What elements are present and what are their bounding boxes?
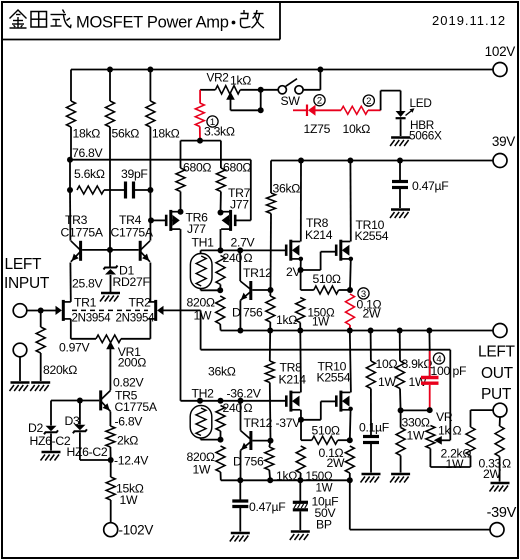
wire VR2 wiper stem xyxy=(230,100,232,111)
wire node to 680 right xyxy=(200,140,221,142)
ground below 330 xyxy=(390,474,410,483)
svg-text:36kΩ: 36kΩ xyxy=(208,365,236,379)
title kanji 田 xyxy=(31,12,47,28)
wire TR4 emitter to TR2 drain xyxy=(149,263,151,302)
svg-text:3.3kΩ: 3.3kΩ xyxy=(204,125,235,139)
svg-text:10kΩ: 10kΩ xyxy=(343,122,371,136)
wire 100pF top lead red overlay xyxy=(429,351,431,376)
resistor 150 upper 1W xyxy=(296,298,305,323)
wire 240 to junction xyxy=(219,285,221,291)
svg-text:200Ω: 200Ω xyxy=(118,356,146,370)
wire 2.7V line xyxy=(201,249,286,251)
resistor 2k xyxy=(106,426,115,447)
svg-text:Ω: Ω xyxy=(244,401,253,415)
wire TR7 gate riser xyxy=(250,160,252,221)
svg-text:2kΩ: 2kΩ xyxy=(117,434,138,448)
terminal -102V xyxy=(104,523,118,537)
svg-text:36kΩ: 36kΩ xyxy=(273,182,301,196)
potentiometer VR2 1k xyxy=(215,86,240,94)
wire TR3 emitter to TR1 drain xyxy=(69,263,71,302)
wire 3.9k top lead xyxy=(399,331,401,362)
title box right line xyxy=(279,2,281,40)
wire 0.33 to ground xyxy=(499,457,501,482)
svg-text:820Ω: 820Ω xyxy=(187,296,215,310)
wire 680 left bottom lead xyxy=(180,192,182,212)
wire 18k #1 bottom lead xyxy=(70,127,72,160)
wire TR10 lower drain riser xyxy=(350,331,351,393)
transistor TR8 upper K214 xyxy=(286,240,300,261)
svg-text:TH2: TH2 xyxy=(192,387,215,401)
resistor 820 upper 1W xyxy=(216,296,225,324)
junction TR12 upper base xyxy=(268,287,274,293)
wire 0.47uF upper to ground xyxy=(399,189,401,209)
capacitor 10uF 50V BP xyxy=(293,502,308,510)
switch SW pole 1 xyxy=(278,86,286,94)
svg-text:D: D xyxy=(233,455,242,469)
wire 36k upper bottom lead xyxy=(270,214,273,291)
svg-text:D2: D2 xyxy=(28,421,44,435)
wire TR10 lower source drop xyxy=(349,409,352,440)
svg-text:J77: J77 xyxy=(230,198,249,212)
wire 680 left top lead xyxy=(180,141,182,168)
wire 76.8V node down xyxy=(69,160,71,190)
wire TR8 upper drain riser xyxy=(300,161,302,242)
terminal 102V xyxy=(493,63,507,77)
junction TR7 drain stub xyxy=(218,210,224,216)
junction 3.9k 330 node xyxy=(398,407,404,413)
VR1 wiper arrow xyxy=(106,341,115,349)
svg-text:C1775A: C1775A xyxy=(61,226,104,240)
resistor 820k xyxy=(36,327,45,353)
wire 330 node link xyxy=(401,409,430,411)
wire TR8 lower drain riser xyxy=(299,331,302,393)
svg-text:J77: J77 xyxy=(187,222,206,236)
wire 10uF to ground xyxy=(299,512,301,531)
svg-text:2: 2 xyxy=(317,96,322,107)
wire TR8 lower source drop xyxy=(300,410,302,420)
circled 4 xyxy=(433,353,444,365)
wire SW to riser xyxy=(303,89,320,91)
transistor TR10 upper K2554 xyxy=(336,240,350,261)
wire TR10 lower gate lead xyxy=(321,400,336,402)
junction top rail x110 xyxy=(107,67,113,73)
dashed pair line xyxy=(72,309,148,311)
svg-text:Ω: Ω xyxy=(453,424,462,438)
terminal 39V xyxy=(493,154,507,168)
svg-text:1W: 1W xyxy=(446,457,464,471)
svg-text:756: 756 xyxy=(243,306,263,320)
svg-text:PUT: PUT xyxy=(481,386,512,403)
title kanji 式 xyxy=(51,10,72,28)
wire output rail xyxy=(221,330,493,332)
svg-text:BP: BP xyxy=(316,518,332,532)
transistor TR3 C1775A xyxy=(71,241,81,262)
wire 2k to -12.4V xyxy=(109,447,111,460)
wire 5.6k to cap xyxy=(104,189,126,191)
wire 0.1uF to ground xyxy=(370,444,372,473)
svg-text:1W: 1W xyxy=(316,482,333,495)
transistor TR2 2N3954 xyxy=(148,300,163,321)
LED HBR5066X xyxy=(396,108,415,118)
wire TR7 gate lead xyxy=(235,219,250,221)
wire 1k upper top lead xyxy=(269,290,271,296)
wire TH1 top lead xyxy=(200,250,202,253)
wire TR1 source to VR1 xyxy=(71,338,96,340)
svg-text:Ω: Ω xyxy=(502,457,511,471)
wire 10ohm top lead xyxy=(370,331,372,362)
circled 2 (10k) xyxy=(363,95,374,107)
svg-text:2019.11.12: 2019.11.12 xyxy=(432,13,506,28)
svg-text:820kΩ: 820kΩ xyxy=(43,363,77,377)
wire TR10 gate riser xyxy=(320,252,322,270)
transistor TR10 lower K2554 xyxy=(336,391,350,412)
junction lower rail 150 xyxy=(297,477,303,483)
wire TR10 upper source drop xyxy=(349,259,352,290)
svg-text:RD27F: RD27F xyxy=(113,275,150,289)
wire 10uF top lead xyxy=(299,480,301,501)
junction output rail fb xyxy=(426,328,432,334)
svg-text:-37V: -37V xyxy=(276,416,302,430)
wire -37V to 510 lower xyxy=(300,420,302,440)
junction output rail TR12e xyxy=(237,328,243,334)
junction 0.1 top xyxy=(347,287,353,293)
circled 1 xyxy=(207,116,218,128)
wire cap to TR4 collector line xyxy=(134,189,151,191)
junction TR6 drain stub xyxy=(178,209,184,215)
capacitor 39pF xyxy=(126,182,134,199)
resistor 36k upper xyxy=(267,193,276,214)
wire -36.2V rail xyxy=(200,400,286,402)
wire feedback line xyxy=(201,349,451,351)
wire 76.8V rail xyxy=(70,159,251,161)
wire VR1 to TR2 source xyxy=(121,338,150,340)
title kanji 改 xyxy=(241,10,265,28)
junction top rail x150 xyxy=(147,67,153,73)
wire TR10 gate lead xyxy=(321,251,336,253)
svg-text:HZ6-C2: HZ6-C2 xyxy=(67,445,108,459)
wire LED top lead xyxy=(400,91,402,111)
svg-text:39pF: 39pF xyxy=(121,167,148,181)
wire TR2 gate drop xyxy=(200,310,202,349)
wire 15k top lead xyxy=(110,460,112,477)
wire TR1 source down xyxy=(70,319,72,339)
potentiometer VR 1k xyxy=(426,426,435,449)
wire TR6 drop to TH2 xyxy=(181,400,201,402)
junction output rail 1k xyxy=(267,328,273,334)
wire TR12 lower collector lead xyxy=(240,401,242,431)
thermistor TH2 xyxy=(190,406,212,439)
svg-text:TH1: TH1 xyxy=(192,236,215,250)
transistor TR7 J77 xyxy=(221,210,235,231)
terminal -39V xyxy=(490,523,504,537)
wire 18k #1 top lead xyxy=(70,70,72,102)
wire 1k upper bottom lead xyxy=(269,322,271,331)
resistor 240 upper xyxy=(216,256,225,285)
junction output rail 0.1 xyxy=(347,328,353,334)
svg-text:MOSFET Power Amp: MOSFET Power Amp xyxy=(76,14,229,32)
wire 0.47uF upper top lead xyxy=(399,161,401,182)
wire 3.9k bottom lead xyxy=(399,389,402,411)
svg-text:1W: 1W xyxy=(193,463,211,477)
svg-text:1W: 1W xyxy=(120,493,138,507)
terminal output lower xyxy=(493,403,507,417)
junction TR10 lower source stub xyxy=(348,407,353,412)
wire VR bottom lead xyxy=(429,449,431,468)
wire 10k to LED corner red xyxy=(368,109,381,111)
wire out2 to 2.2k xyxy=(471,409,494,411)
wire 820 lower bottom lead xyxy=(220,472,222,480)
resistor 3.9k 1W xyxy=(396,361,405,389)
transistor TR8 lower K214 xyxy=(286,391,300,412)
wire 18k #2 bottom lead xyxy=(149,127,151,241)
junction 820 lower top xyxy=(218,437,224,443)
ground input terminal xyxy=(10,383,30,392)
wire 0.47uF lower to ground xyxy=(239,508,241,532)
resistor 10k (red) xyxy=(341,106,368,114)
ground below 0.1uF xyxy=(361,474,381,483)
wire D3 top lead xyxy=(79,401,81,425)
wire LED branch top xyxy=(381,90,401,92)
wire TR3-TR4 base link xyxy=(82,249,139,251)
ground below 0.47uF lower xyxy=(230,533,250,542)
title box bottom line xyxy=(2,39,280,41)
resistor 0.1 lower 2W xyxy=(345,446,354,473)
junction -12.4V xyxy=(108,457,114,463)
junction input node xyxy=(38,308,44,314)
wire to -39V terminal xyxy=(350,529,490,531)
wire 102V top rail xyxy=(71,69,493,71)
junction 240 lower top xyxy=(218,398,224,404)
wire TR12 upper base xyxy=(252,289,270,291)
junction output rail 150 xyxy=(297,328,303,334)
wire 510 upper left lead xyxy=(301,289,314,291)
wire TH2 bottom lead xyxy=(200,438,202,440)
junction 39V rail x400 xyxy=(397,158,403,164)
wire 36k lower top lead xyxy=(269,331,271,362)
resistor 1k lower xyxy=(265,447,274,470)
svg-text:0.97V: 0.97V xyxy=(59,341,91,355)
wire feedback to VR wiper xyxy=(449,350,451,441)
wire VR2 right lead xyxy=(240,89,261,91)
wire wiper line red segment xyxy=(293,109,306,111)
wire 820 upper bottom lead xyxy=(219,324,221,331)
wire TR12 upper collector xyxy=(239,250,241,281)
svg-text:VR: VR xyxy=(436,410,453,424)
junction lower rail TR12e xyxy=(237,477,243,483)
junction lower rail 1k xyxy=(267,477,273,483)
wire TR8 gate is 2.7V line end xyxy=(285,249,287,251)
VR wiper arrow xyxy=(434,436,442,445)
capacitor 100pF (red) xyxy=(421,378,439,384)
svg-text:25.8V: 25.8V xyxy=(72,277,104,291)
capacitor 0.47uF lower xyxy=(232,501,248,507)
wire TR7 source drop xyxy=(220,229,222,250)
resistor 330 1W xyxy=(396,428,405,456)
wire 240 lower bottom lead xyxy=(220,431,222,440)
wire VR1 wiper stem xyxy=(109,349,111,390)
svg-text:3.9kΩ: 3.9kΩ xyxy=(402,357,433,371)
svg-text:LED: LED xyxy=(410,96,432,110)
resistor 680 right xyxy=(216,168,225,192)
wire 56k bottom lead xyxy=(109,127,111,250)
wire 820k top lead xyxy=(40,311,42,328)
resistor 0.33 2W xyxy=(495,426,504,457)
wire VR2 wiper to node xyxy=(231,109,261,111)
resistor 5.6k xyxy=(77,186,104,194)
wire 150 lower bottom lead xyxy=(299,473,301,480)
wire 100pF top lead red xyxy=(429,350,431,376)
svg-text:-102V: -102V xyxy=(119,523,154,538)
svg-text:510Ω: 510Ω xyxy=(312,424,340,438)
junction VR top xyxy=(427,407,433,413)
svg-text:K214: K214 xyxy=(279,373,307,387)
wire SW riser to 102V rail xyxy=(319,70,321,90)
wire input to gate xyxy=(27,310,58,312)
svg-text:756: 756 xyxy=(244,455,264,469)
svg-text:pF: pF xyxy=(453,364,467,378)
wire D3 to -12.4V node xyxy=(80,459,111,461)
junction TR6 gate xyxy=(148,217,154,223)
junction 510 lower right xyxy=(347,437,353,443)
junction 39V rail x301 xyxy=(298,158,304,164)
junction output rail 10 xyxy=(368,328,374,334)
wire 330 top lead xyxy=(400,410,402,427)
resistor 2.2k 1W xyxy=(466,427,475,456)
svg-text:TR12: TR12 xyxy=(244,416,273,430)
wire D2 top lead xyxy=(50,401,52,426)
wire TR8 upper source drop xyxy=(300,259,302,270)
transistor TR4 C1775A xyxy=(140,241,150,262)
svg-text:76.8V: 76.8V xyxy=(72,146,104,160)
svg-text:240: 240 xyxy=(223,401,243,415)
transistor TR5 C1775A xyxy=(101,390,111,411)
wire TH2 to 820 node xyxy=(201,439,221,441)
svg-text:1W: 1W xyxy=(194,309,212,323)
wire TR5 emitter lead xyxy=(109,412,111,427)
wire 2.2k bottom lead xyxy=(470,456,472,468)
wire VR bottom to 2.2k bottom xyxy=(430,466,470,468)
resistor 820 lower 1W xyxy=(216,446,225,472)
junction 76.8V rail xyxy=(67,157,73,163)
wire 10ohm to 0.1uF xyxy=(370,389,372,437)
wire 150 upper bottom lead xyxy=(299,323,301,331)
junction 39V rail x350 xyxy=(347,158,353,164)
transistor TR1 2N3954 xyxy=(56,300,71,321)
wire TR6 source drop xyxy=(180,229,182,401)
junction 820 upper top xyxy=(217,287,223,293)
ground below 10uF xyxy=(290,532,310,541)
resistor 56k xyxy=(106,101,115,127)
switch SW pole 2 xyxy=(295,86,303,94)
diode D3 HZ6-C2 xyxy=(73,425,87,434)
junction top rail x320 xyxy=(317,67,323,73)
svg-text:100: 100 xyxy=(431,364,451,378)
transistor TR6 J77 xyxy=(166,210,180,231)
svg-text:LEFT: LEFT xyxy=(5,256,43,273)
junction lower rail 0.1 xyxy=(347,477,353,483)
svg-text:K2554: K2554 xyxy=(317,371,351,385)
svg-text:C1775A: C1775A xyxy=(111,226,154,240)
ground below LED xyxy=(390,138,410,147)
title separator dot xyxy=(232,21,236,25)
wire D1 to ground xyxy=(110,275,112,292)
svg-text:-6.8V: -6.8V xyxy=(115,415,144,429)
junction TR12 lower base xyxy=(268,438,274,444)
wire TR12 upper emitter drop xyxy=(239,300,241,330)
wire TR10 lower gate riser xyxy=(320,401,322,419)
wire VR wiper stem xyxy=(442,439,451,441)
wire 18k #2 top lead xyxy=(149,70,151,102)
ground below D2 xyxy=(41,452,61,461)
svg-text:SW: SW xyxy=(281,94,301,108)
svg-text:K2554: K2554 xyxy=(355,229,389,243)
transistor TR12 lower xyxy=(241,431,251,451)
wire input gnd terminal lead xyxy=(19,357,21,381)
svg-text:5066X: 5066X xyxy=(409,129,442,143)
wire TR12 lower base xyxy=(252,440,270,442)
capacitor 0.47uF upper xyxy=(392,182,408,188)
circled 2 (SW) xyxy=(314,95,325,107)
svg-text:1Z75: 1Z75 xyxy=(304,122,331,136)
resistor 510 upper xyxy=(314,286,339,294)
resistor 0.1 2W (red) xyxy=(346,294,355,325)
wire 1k lower bottom lead xyxy=(268,470,271,480)
wire 680 right bottom lead xyxy=(220,192,222,213)
wire 36k upper top lead xyxy=(270,161,272,194)
ground below 820k xyxy=(30,383,50,392)
svg-text:TR2: TR2 xyxy=(129,296,152,310)
wire VR2 node vertical xyxy=(260,90,262,111)
svg-text:-36.2V: -36.2V xyxy=(227,387,262,401)
svg-text:1W: 1W xyxy=(407,429,425,443)
svg-text:INPUT: INPUT xyxy=(4,275,50,292)
wire TR2 gate lead xyxy=(163,309,200,311)
junction 2V node xyxy=(298,267,304,273)
svg-text:-12.4V: -12.4V xyxy=(114,454,149,468)
svg-text:18kΩ: 18kΩ xyxy=(73,127,101,141)
junction output rail 3.9k xyxy=(397,328,403,334)
wire 0.33 top lead xyxy=(499,417,501,426)
svg-text:C1775A: C1775A xyxy=(115,400,158,414)
svg-text:K214: K214 xyxy=(305,228,333,242)
junction TR12 lower collector xyxy=(238,398,244,404)
svg-text:102V: 102V xyxy=(485,44,516,59)
wire node to 680 left xyxy=(181,140,201,142)
transistor TR12 upper xyxy=(240,281,251,300)
wire 56k top lead xyxy=(109,70,111,102)
svg-text:10Ω: 10Ω xyxy=(376,357,398,371)
svg-text:330Ω: 330Ω xyxy=(402,416,430,430)
wire D2 to ground xyxy=(50,434,52,451)
wire VR2 left lead xyxy=(200,89,215,91)
resistor 510 lower xyxy=(312,436,338,444)
svg-text:2.7V: 2.7V xyxy=(231,236,256,250)
junction 240 top xyxy=(218,247,224,253)
circled 3 xyxy=(358,288,369,300)
junction -37V node xyxy=(298,417,304,423)
resistor 680 left xyxy=(176,168,185,192)
resistor 18k #1 xyxy=(67,101,76,127)
switch SW lever xyxy=(286,79,297,87)
svg-text:1k: 1k xyxy=(438,424,451,438)
title kanji 金 xyxy=(10,10,27,28)
svg-text:680Ω: 680Ω xyxy=(223,161,251,175)
wire TR5 base xyxy=(51,400,99,402)
wire 1k lower top lead xyxy=(269,441,270,447)
wire 0.1 lower bottom lead xyxy=(349,473,351,480)
junction 39pF right xyxy=(147,187,153,193)
junction TR8 upper source stub xyxy=(299,257,304,262)
